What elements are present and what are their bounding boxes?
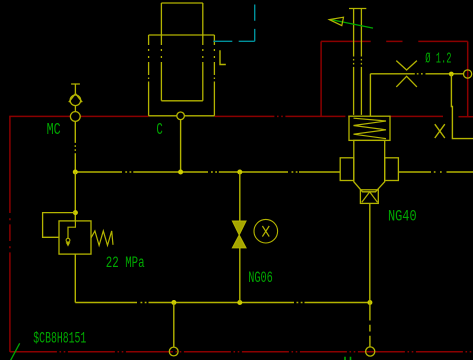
wire yellow mid bus y172 segment 3: [219, 171, 340, 173]
MC port circle on bus: [70, 112, 80, 122]
valve NG40 right port tab: [385, 158, 399, 181]
orifice lower V: [396, 76, 417, 87]
wire red top bus segment 2: [386, 40, 402, 42]
wire orifice line dots: [417, 73, 423, 75]
relief valve internal ball: [66, 238, 70, 242]
wire pilot tap vertical from spring box: [369, 74, 371, 116]
wire relief valve outlet down: [74, 254, 76, 302]
wire MC drop line: [74, 121, 76, 172]
valve NG40 actuator stem double lines: [353, 9, 355, 117]
wire red main bus segment 2: [81, 115, 149, 117]
wire orifice line horizontal segment 1: [370, 73, 414, 75]
svg-text:Ø 1.2: Ø 1.2: [425, 52, 451, 68]
measuring port circle right edge: [464, 70, 472, 78]
valve NG40 seat box: [360, 190, 378, 204]
wire red riser x321: [320, 41, 322, 116]
adjustment arrowhead (yellow outline): [329, 17, 343, 25]
MC measuring coupling T-top: [71, 84, 80, 95]
svg-text:NG06: NG06: [248, 269, 273, 287]
wire red main bus segment 3: [214, 115, 349, 117]
wire mid bus dots: [125, 171, 297, 173]
gauge circle with X: [254, 219, 278, 243]
node C port circle: [177, 112, 185, 120]
node junction at MC/bus: [73, 170, 78, 175]
wire NG06 branch lower: [239, 248, 241, 303]
gauge X glyph: [262, 226, 269, 237]
wire right bus y172 segment 2: [447, 171, 473, 173]
relief valve internal arrowhead: [66, 242, 71, 246]
wire C drop line: [180, 120, 182, 172]
svg-text:C: C: [156, 120, 162, 139]
relief valve V1 body square: [59, 221, 91, 254]
wire red top bus segment 3: [418, 40, 467, 42]
label X (yellow strokes): [435, 124, 445, 138]
cylinder C outer barrel: [149, 35, 215, 116]
valve NG06 lower triangle: [233, 235, 246, 248]
wire red main pressure bus y116: [9, 115, 70, 117]
MC coupling circle: [70, 95, 81, 106]
node junction at C/bus: [178, 170, 183, 175]
wire yellow bottom bus y302 segment 1: [75, 302, 137, 304]
valve NG40 cartridge body: [354, 140, 385, 191]
svg-text:MC: MC: [47, 120, 61, 139]
node pilot tap: [73, 210, 78, 215]
wire NG40 outlet down: [369, 203, 371, 302]
wire NG06 branch upper: [239, 172, 241, 221]
valve NG40 seat cone: [362, 192, 378, 202]
clipped green text fragment bottom center: [345, 357, 351, 360]
wire red riser x468: [467, 41, 469, 116]
wire pilot line loop: [43, 213, 76, 238]
wire measuring branch down and out: [451, 74, 473, 139]
wire red bottom tank bus: [10, 351, 473, 353]
valve NG06 upper triangle: [233, 221, 246, 235]
wire yellow bottom bus y302 segment 2: [149, 302, 295, 304]
tank port circle left: [169, 347, 178, 356]
break mark green diagonal: [11, 343, 20, 360]
node tank drop left: [171, 300, 176, 305]
wire bottom bus dots: [141, 302, 303, 304]
orifice upper V: [396, 61, 417, 70]
wire red main bus segment 4: [390, 115, 443, 117]
wire red top bus y41: [321, 40, 371, 42]
valve NG40 left port tab: [340, 158, 354, 181]
adjustment arrow line (green): [331, 20, 373, 29]
wire red main bus segment 5: [459, 116, 473, 118]
wire cyan dashed link horizontal: [213, 40, 254, 42]
wire tank drop line right (phantom): [369, 303, 371, 348]
wire right bus dots: [434, 171, 442, 173]
label L (yellow): [220, 50, 226, 64]
svg-text:22 MPa: 22 MPa: [106, 254, 145, 272]
wire MC link: [74, 106, 76, 112]
wire tank drop line left: [173, 303, 175, 348]
wire red left vertical P-line: [9, 116, 11, 352]
wire orifice line horizontal segment 2: [426, 73, 464, 75]
relief valve spring: [91, 231, 113, 246]
valve NG40 stem top bar: [349, 8, 366, 10]
node NG40 bottom: [367, 300, 372, 305]
wire yellow mid bus y172 segment 1: [75, 171, 122, 173]
relief valve internal flow path: [68, 221, 75, 238]
cylinder C piston and rod inner rectangle: [161, 3, 202, 101]
wire yellow bottom bus y302 segment 3: [305, 302, 370, 304]
node junction at NG06/bus: [237, 170, 242, 175]
valve NG40 spring zigzag: [354, 118, 387, 138]
node measuring branch: [449, 72, 454, 77]
wire cyan dashed link vertical: [254, 5, 256, 42]
node NG06 bottom: [237, 300, 242, 305]
MC coupling chevron seat: [69, 94, 82, 103]
wire yellow mid bus y172 segment 2: [133, 171, 208, 173]
wire right bus y172 segment 1: [398, 171, 431, 173]
tank port circle right: [366, 347, 375, 356]
wire relief valve branch: [74, 172, 76, 221]
valve NG40 spring box: [349, 116, 390, 140]
svg-text:$CB8H8151: $CB8H8151: [33, 330, 86, 348]
svg-text:NG40: NG40: [388, 208, 417, 226]
